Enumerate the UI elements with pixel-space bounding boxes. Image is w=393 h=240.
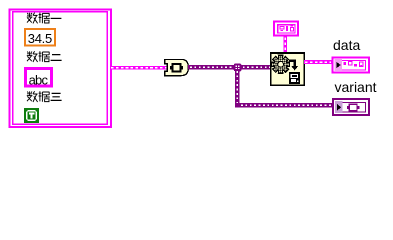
string constant abc (26, 69, 52, 87)
cluster constant shell (outer frame) (10, 10, 112, 128)
wire type-constant-to-node2 (pink dashed vertical) (283, 37, 287, 53)
numeric constant 34.5 (25, 29, 55, 46)
type specifier constant (cluster type) (274, 22, 298, 36)
gear glyph (variant symbol) (272, 55, 290, 73)
wire vertical branch (variant) (235, 69, 240, 107)
svg-text:abc: abc (29, 73, 49, 88)
label 数据一 (27, 13, 62, 24)
svg-text:34.5: 34.5 (28, 31, 52, 46)
cluster glyph inside U1 (172, 64, 180, 72)
wire junction (234, 63, 242, 71)
variant indicator (333, 99, 369, 115)
cluster constant shell (inner frame) (13, 12, 108, 124)
node U1 To Variant (165, 59, 189, 75)
data indicator (cluster) (333, 58, 370, 73)
floppy glyph (289, 72, 300, 84)
svg-text:variant: variant (335, 79, 377, 95)
arrow glyph (289, 61, 295, 66)
label 数据三 (27, 91, 62, 102)
node U2 Variant To Data (271, 53, 305, 85)
wire node2-to-data indicator (pink dashed) (304, 60, 332, 64)
svg-text:data: data (333, 37, 360, 53)
wire cluster-to-node1 (pink dashed) (110, 66, 168, 70)
label 数据二 (27, 51, 62, 62)
boolean constant TRUE (24, 108, 39, 123)
wire node1-to-node2 (variant, purple dotted) (188, 65, 271, 70)
wire lower horizontal to variant indicator (235, 103, 333, 108)
